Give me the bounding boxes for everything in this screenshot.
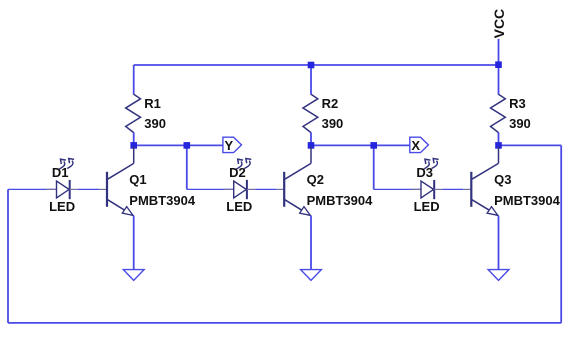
wire: feedback to D1 anode — [8, 188, 57, 190]
svg-text:D2: D2 — [229, 165, 246, 180]
resistor R2 — [303, 94, 318, 132]
svg-text:390: 390 — [144, 116, 166, 131]
resistor R1 — [126, 94, 141, 132]
svg-text:R3: R3 — [509, 96, 526, 111]
svg-text:Q2: Q2 — [307, 172, 324, 187]
svg-text:Q3: Q3 — [494, 172, 511, 187]
ground (Q3 emitter) — [488, 270, 509, 281]
svg-text:D3: D3 — [416, 165, 433, 180]
wire: R3 top lead from bus — [498, 65, 500, 95]
wire: VCC top bus — [134, 64, 499, 66]
wire: feedback bottom — [8, 322, 561, 324]
wire: node 3 row (R3/Q3 collector to right edge) — [499, 144, 562, 146]
wire: D1 cathode to Q1 base — [78, 188, 99, 190]
wire: feedback left edge — [7, 189, 9, 323]
transistor Q2 — [276, 147, 311, 216]
svg-text:PMBT3904: PMBT3904 — [307, 193, 374, 208]
svg-text:390: 390 — [509, 116, 531, 131]
svg-text:PMBT3904: PMBT3904 — [129, 193, 196, 208]
junction node1 drop — [184, 142, 191, 149]
wire: node 2 row (R2/Q2 collector to port X) — [311, 144, 410, 146]
wire: R1 bottom lead to node — [133, 132, 135, 145]
wire: Q2 emitter to ground — [310, 216, 312, 270]
transistor Q1 — [99, 147, 134, 216]
svg-text:D1: D1 — [52, 165, 69, 180]
svg-text:X: X — [411, 138, 420, 153]
svg-text:Q1: Q1 — [129, 172, 146, 187]
wire: R1 top lead from bus — [133, 65, 135, 95]
svg-text:LED: LED — [49, 199, 75, 214]
svg-text:LED: LED — [226, 199, 252, 214]
svg-text:LED: LED — [414, 199, 440, 214]
wire: node 1 row (R1/Q1 collector to port Y) — [134, 144, 223, 146]
wire: node 1 drop to D2 anode — [186, 145, 188, 189]
LED D3 — [411, 159, 443, 200]
resistor R3 — [491, 94, 506, 132]
ground (Q1 emitter) — [123, 270, 144, 281]
svg-text:R1: R1 — [144, 96, 161, 111]
junction node1/R1 — [130, 142, 137, 149]
net port Y — [223, 137, 242, 152]
junction node3/R3 — [495, 142, 502, 149]
wire: R2 top lead from bus — [310, 65, 312, 95]
net port X — [410, 137, 429, 152]
wire: D2 cathode to Q2 base — [255, 188, 276, 190]
wire: D3 cathode to Q3 base — [442, 188, 463, 190]
wire: feedback right edge — [560, 145, 562, 323]
junction node2 drop — [370, 142, 377, 149]
svg-text:R2: R2 — [322, 96, 339, 111]
svg-text:390: 390 — [322, 116, 344, 131]
LED D2 — [223, 159, 255, 200]
wire: node 2 drop to D3 anode — [373, 145, 375, 189]
junction bus/VCC/R3 — [495, 61, 502, 68]
svg-text:VCC: VCC — [491, 9, 507, 39]
junction node2/R2 — [308, 142, 315, 149]
wire: Q3 emitter to ground — [498, 216, 500, 270]
wire: Q1 emitter to ground — [133, 216, 135, 270]
LED D1 — [46, 159, 78, 200]
ground (Q2 emitter) — [301, 270, 322, 281]
junction bus/R2 — [308, 62, 315, 69]
wire: R2 bottom lead to node — [310, 132, 312, 145]
svg-text:Y: Y — [224, 138, 233, 153]
svg-text:PMBT3904: PMBT3904 — [494, 193, 561, 208]
wire: R3 bottom lead to node — [498, 132, 500, 145]
wire: VCC riser — [498, 39, 500, 65]
transistor Q3 — [463, 147, 498, 216]
